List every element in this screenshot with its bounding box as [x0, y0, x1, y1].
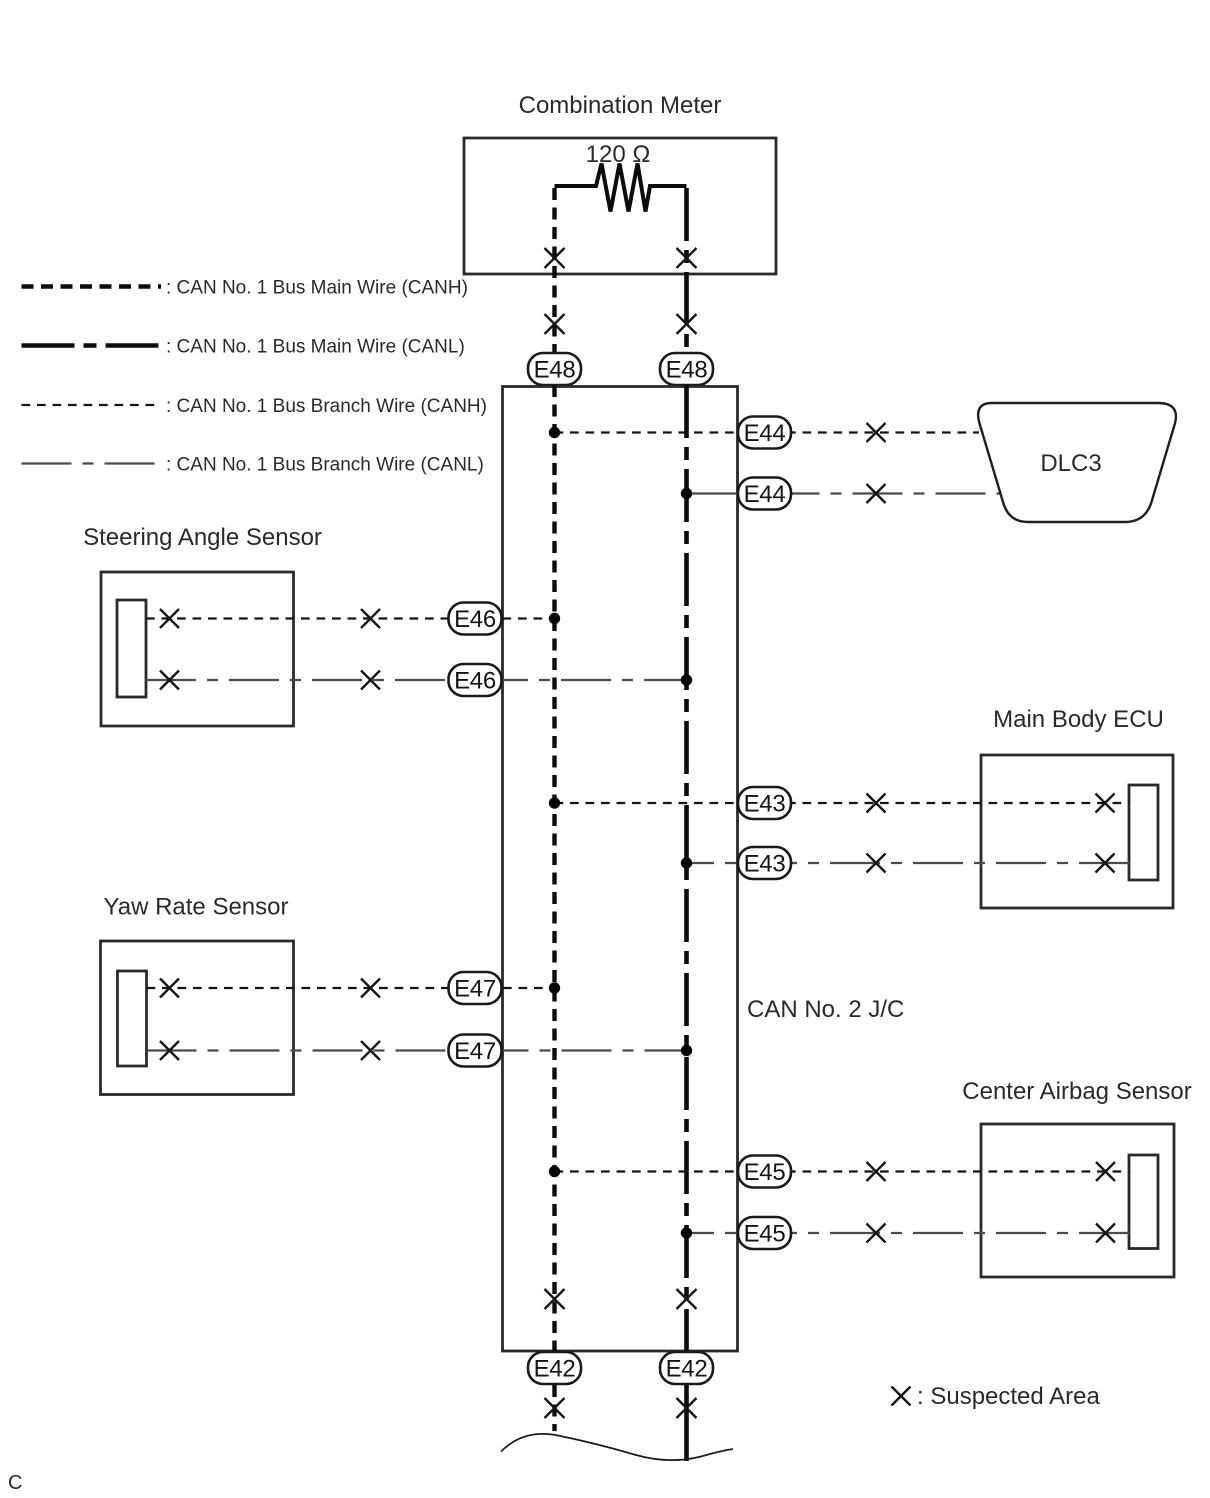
connector E48 left	[528, 353, 581, 385]
svg-text:E45: E45	[744, 1159, 786, 1186]
Center Airbag Sensor box	[981, 1124, 1174, 1277]
legend line CAN No.1 Bus Branch Wire CANH	[22, 404, 162, 406]
connector E47 CANL	[449, 1035, 502, 1067]
connector E48 right	[660, 353, 713, 385]
junction node E46 CANH	[549, 613, 560, 624]
junction node E44 CANL	[681, 488, 692, 499]
svg-text:E48: E48	[666, 357, 708, 384]
connector E45 CANL	[738, 1217, 791, 1249]
suspected area X on CANL above E48	[677, 314, 697, 334]
svg-text:E46: E46	[454, 668, 496, 695]
connector E47 CANH	[449, 972, 502, 1004]
wire CANH main vertical inside combination meter	[552, 188, 556, 353]
svg-text:E45: E45	[744, 1221, 786, 1248]
Yaw Rate Sensor connector pin block	[118, 971, 147, 1066]
Combination Meter box	[464, 138, 776, 274]
suspected area X on E43 CANH inside ECU	[1096, 794, 1115, 813]
svg-text:E43: E43	[744, 851, 786, 878]
suspected area X on CANH above box bottom	[545, 1289, 565, 1309]
svg-text:E43: E43	[744, 791, 786, 818]
svg-text:: CAN No. 1 Bus Branch Wire (C: : CAN No. 1 Bus Branch Wire (CANH)	[166, 396, 487, 417]
suspected area X on E44 CANL branch	[867, 484, 886, 503]
svg-text:Center Airbag Sensor: Center Airbag Sensor	[962, 1078, 1191, 1105]
branch wire E45 CANH to center airbag sensor	[555, 1170, 1130, 1172]
branch wire E44 CANL to DLC3	[687, 492, 1002, 494]
connector E42 right	[660, 1352, 713, 1384]
suspected area X on CANH above E48	[545, 314, 565, 334]
svg-text:E48: E48	[534, 357, 576, 384]
suspected area X on CANH below E42	[545, 1398, 565, 1418]
svg-text:E44: E44	[744, 420, 786, 447]
suspected area X on E47 CANL mid	[361, 1041, 380, 1060]
junction node E44 CANH	[549, 427, 560, 438]
svg-text:E47: E47	[454, 976, 496, 1003]
connector E44 CANL	[738, 478, 791, 510]
wire CANL main vertical in J/C box	[684, 385, 689, 1352]
suspected area X on CANL above meter box bottom	[677, 248, 697, 268]
junction node E47 CANH	[549, 982, 560, 993]
DLC3 connector body	[978, 403, 1176, 522]
junction node E43 CANL	[681, 857, 692, 868]
svg-text:E44: E44	[744, 481, 786, 508]
suspected area X on E45 CANH outside sensor	[867, 1162, 886, 1181]
junction node E43 CANH	[549, 797, 560, 808]
suspected area X on E44 CANH branch	[867, 423, 886, 442]
CAN No.2 J/C junction box	[503, 387, 738, 1352]
legend line CAN No.1 Bus Main Wire CANL	[22, 343, 162, 348]
svg-text:: Suspected Area: : Suspected Area	[917, 1383, 1100, 1410]
svg-text:E42: E42	[534, 1356, 576, 1383]
connector E46 CANH	[449, 603, 502, 635]
suspected area legend X	[892, 1387, 911, 1406]
suspected area X on E46 CANH mid	[361, 609, 380, 628]
suspected area X on E46 CANL mid	[361, 671, 380, 690]
suspected area X on E45 CANH inside sensor	[1096, 1162, 1115, 1181]
branch wire E46 CANH from steering sensor	[146, 617, 555, 619]
resistor R 120ohm zigzag	[555, 164, 687, 212]
legend line CAN No.1 Bus Branch Wire CANL	[22, 462, 162, 464]
svg-text:Combination Meter: Combination Meter	[519, 92, 722, 119]
legend line CAN No.1 Bus Main Wire CANH	[22, 284, 162, 288]
suspected area X on E47 CANH near sensor	[160, 979, 179, 998]
svg-text:C: C	[8, 1472, 22, 1494]
suspected area X on E45 CANL inside sensor	[1096, 1224, 1115, 1243]
junction node E45 CANL	[681, 1227, 692, 1238]
svg-text:Yaw Rate Sensor: Yaw Rate Sensor	[104, 894, 289, 921]
svg-text:E42: E42	[666, 1356, 708, 1383]
wire CANH main below E42	[552, 1385, 556, 1431]
connector E46 CANL	[449, 664, 502, 696]
Main Body ECU box	[981, 755, 1173, 908]
connector E45 CANH	[738, 1156, 791, 1188]
suspected area X on E47 CANH mid	[361, 979, 380, 998]
junction node E45 CANH	[549, 1166, 560, 1177]
branch wire E43 CANH to main body ECU	[555, 802, 1130, 804]
svg-text:E46: E46	[454, 606, 496, 633]
connector E43 CANH	[738, 787, 791, 819]
connector E44 CANH	[738, 417, 791, 449]
connector E42 left	[528, 1352, 581, 1384]
wire CANL main below E42	[684, 1385, 689, 1461]
Steering Angle Sensor box	[101, 572, 294, 726]
suspected area X on E46 CANH near sensor	[160, 609, 179, 628]
suspected area X on CANH above meter box bottom	[545, 248, 565, 268]
branch wire E43 CANL to main body ECU	[687, 862, 1130, 864]
connector E43 CANL	[738, 847, 791, 879]
branch wire E47 CANL from yaw rate sensor	[147, 1049, 687, 1051]
branch wire E44 CANH to DLC3	[555, 431, 980, 433]
svg-text:Steering Angle Sensor: Steering Angle Sensor	[83, 524, 322, 551]
suspected area X on E43 CANL outside ECU	[867, 854, 886, 873]
suspected area X on E47 CANL near sensor	[160, 1041, 179, 1060]
wire CANL main vertical inside combination meter	[684, 188, 689, 353]
svg-text:: CAN No. 1 Bus Branch Wire (C: : CAN No. 1 Bus Branch Wire (CANL)	[166, 455, 484, 476]
suspected area X on E46 CANL near sensor	[160, 671, 179, 690]
svg-text:: CAN No. 1 Bus Main Wire (CAN: : CAN No. 1 Bus Main Wire (CANH)	[166, 278, 468, 299]
suspected area X on E43 CANH outside ECU	[867, 794, 886, 813]
svg-text:Main Body ECU: Main Body ECU	[993, 706, 1164, 733]
branch wire E47 CANH from yaw rate sensor	[147, 987, 555, 989]
wire CANH main vertical in J/C box	[552, 385, 556, 1352]
junction node E47 CANL	[681, 1045, 692, 1056]
svg-text:DLC3: DLC3	[1040, 450, 1101, 477]
Main Body ECU connector pin block	[1129, 785, 1158, 880]
suspected area X on CANL above box bottom	[677, 1289, 697, 1309]
svg-text:CAN No. 2 J/C: CAN No. 2 J/C	[747, 996, 904, 1023]
svg-text:: CAN No. 1 Bus Main Wire (CAN: : CAN No. 1 Bus Main Wire (CANL)	[166, 337, 465, 358]
Yaw Rate Sensor box	[101, 941, 294, 1095]
branch wire E45 CANL to center airbag sensor	[687, 1232, 1130, 1234]
suspected area X on E45 CANL outside sensor	[867, 1224, 886, 1243]
Steering Angle Sensor connector pin block	[117, 600, 146, 697]
suspected area X on CANL below E42	[677, 1398, 697, 1418]
suspected area X on E43 CANL inside ECU	[1096, 854, 1115, 873]
svg-text:E47: E47	[454, 1038, 496, 1065]
Center Airbag Sensor connector pin block	[1129, 1155, 1158, 1249]
junction node E46 CANL	[681, 674, 692, 685]
branch wire E46 CANL from steering sensor	[146, 679, 687, 681]
wire continuation break wavy line	[501, 1434, 733, 1460]
